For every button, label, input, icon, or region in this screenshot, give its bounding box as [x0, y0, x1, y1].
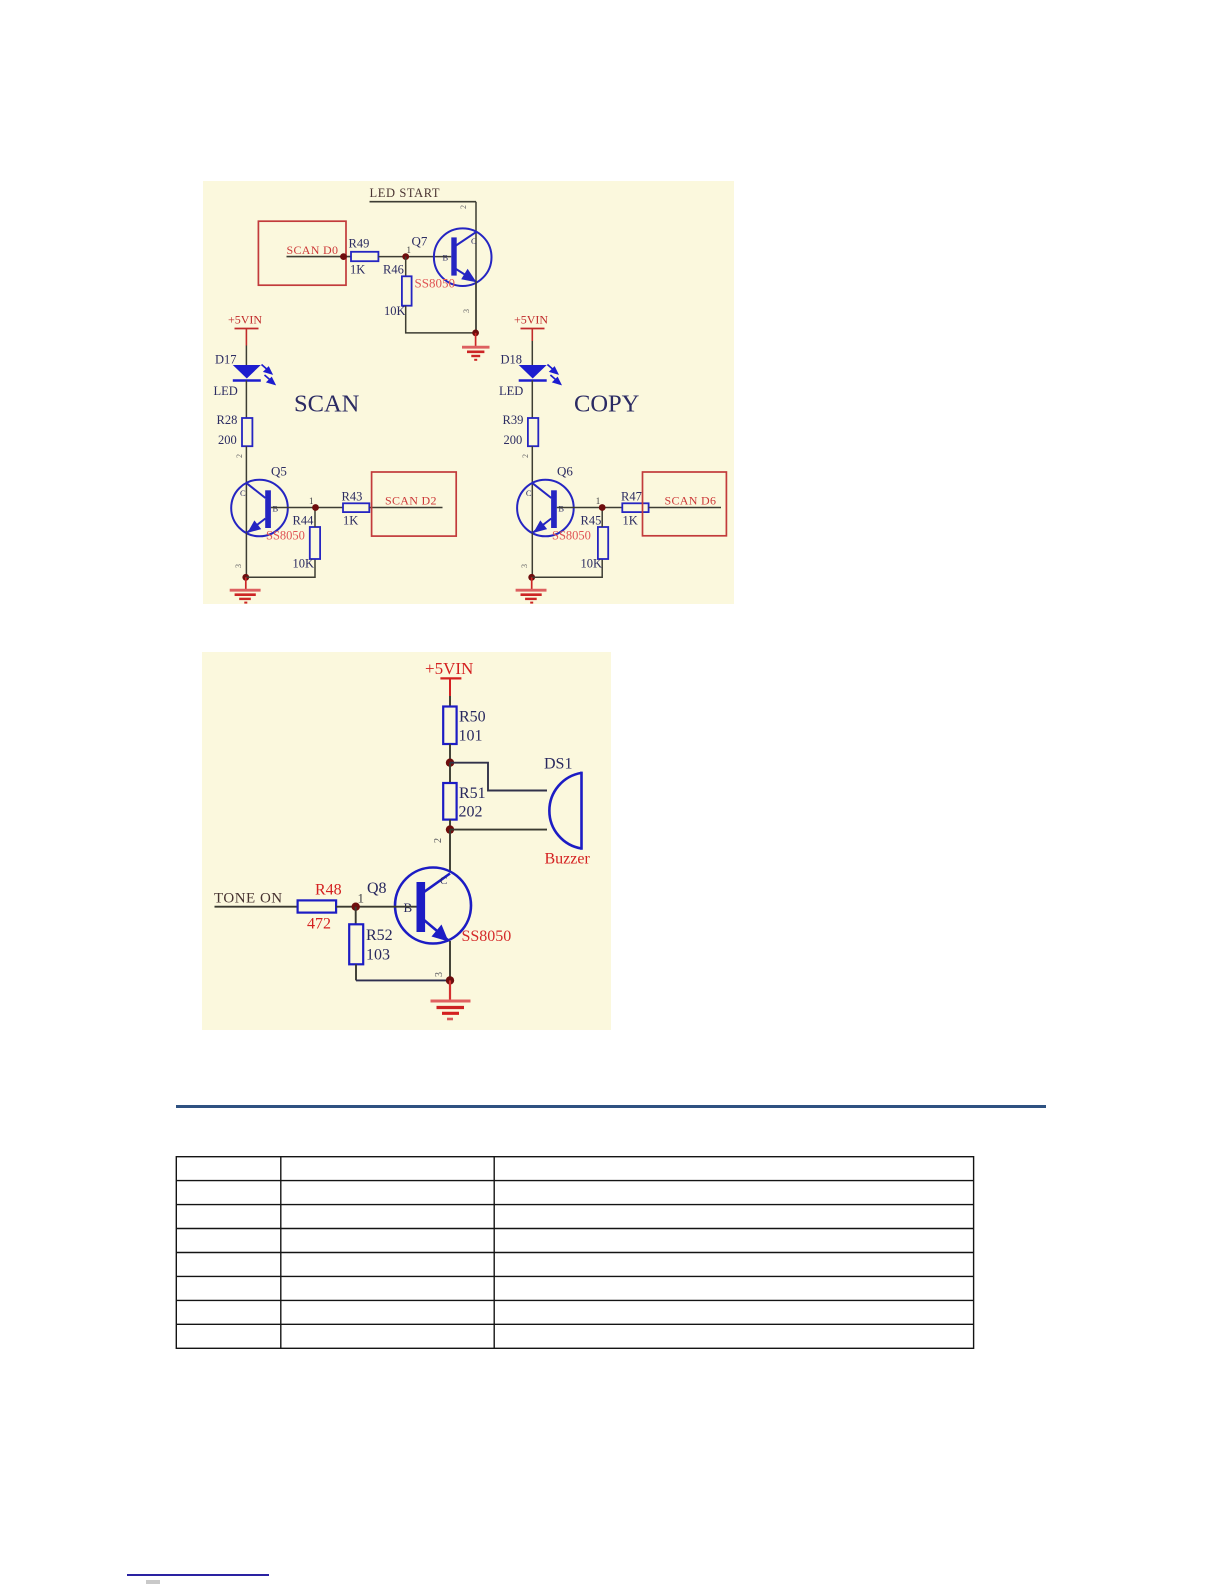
svg-text:B: B	[273, 504, 279, 514]
power +5VIN (COPY branch)	[514, 313, 548, 342]
wire TONE ON to R48	[215, 906, 298, 908]
wire Q6 base to R47	[557, 507, 623, 509]
LED D17	[233, 365, 261, 381]
ground (Q6)	[516, 577, 547, 602]
svg-text:+5VIN: +5VIN	[425, 659, 473, 678]
footnote rule	[127, 1574, 269, 1576]
resistor R48	[298, 900, 337, 912]
wire R39 to Q6	[531, 446, 533, 483]
wire R28 to Q5	[245, 446, 247, 483]
wire R45 top riser	[601, 508, 603, 528]
svg-text:1: 1	[407, 245, 412, 255]
svg-text:1K: 1K	[343, 514, 358, 528]
svg-text:TONE ON: TONE ON	[214, 891, 283, 907]
wire through Q5 body	[245, 483, 247, 533]
junction Q6 emitter/ground	[528, 574, 535, 581]
svg-text:B: B	[558, 504, 564, 514]
svg-text:R45: R45	[581, 514, 602, 528]
empty parts table	[175, 1155, 976, 1351]
port box SCAN D6	[643, 472, 727, 536]
port box SCAN D2	[372, 472, 457, 536]
svg-text:3: 3	[434, 972, 445, 977]
resistor R44	[310, 527, 320, 559]
svg-text:10K: 10K	[384, 304, 406, 318]
svg-text:+5VIN: +5VIN	[228, 313, 262, 327]
transistor Q6	[517, 480, 574, 537]
svg-text:R47: R47	[621, 490, 642, 504]
svg-text:LED START: LED START	[370, 186, 441, 200]
svg-text:R51: R51	[459, 785, 486, 802]
wire D18 to R39	[531, 381, 533, 419]
svg-text:3: 3	[520, 564, 529, 568]
svg-text:R44: R44	[293, 514, 315, 528]
svg-text:+5VIN: +5VIN	[514, 313, 548, 327]
port box SCAN D0	[258, 221, 346, 285]
wire SCAN D0 to R49	[287, 256, 352, 258]
section divider rule	[176, 1105, 1046, 1108]
resistor R47	[622, 503, 648, 512]
resistor R50	[443, 707, 456, 745]
wire Q7 collector riser	[475, 202, 477, 333]
svg-text:1K: 1K	[350, 263, 365, 277]
svg-text:C: C	[471, 236, 477, 246]
svg-text:C: C	[440, 875, 447, 887]
svg-text:R46: R46	[383, 263, 404, 277]
transistor Q5	[231, 480, 288, 537]
svg-text:R28: R28	[217, 413, 238, 427]
ground	[431, 980, 471, 1019]
transistor Q7	[434, 228, 492, 286]
svg-text:3: 3	[234, 564, 243, 568]
svg-text:10K: 10K	[293, 557, 315, 571]
wire Q6 emitter to ground	[531, 533, 533, 578]
wire emitter junction to R44	[246, 559, 315, 577]
svg-text:Q8: Q8	[367, 880, 387, 897]
junction R49/R46/Q7 base	[402, 253, 409, 260]
resistor R52	[349, 907, 363, 981]
schematic panel 2: buzzer driver	[202, 652, 611, 1030]
svg-text:202: 202	[459, 804, 483, 821]
power +5VIN (SCAN branch)	[228, 313, 262, 346]
svg-text:Q6: Q6	[557, 464, 573, 479]
svg-text:B: B	[443, 253, 449, 263]
svg-text:R48: R48	[315, 882, 342, 899]
svg-text:R39: R39	[503, 413, 524, 427]
svg-text:2: 2	[459, 205, 468, 209]
wire Q8 emitter down	[449, 941, 451, 980]
svg-text:SS8050: SS8050	[462, 928, 512, 945]
svg-text:200: 200	[504, 433, 523, 447]
resistor R51	[443, 763, 456, 830]
junction emitter/ground	[446, 976, 454, 984]
wire Q5 emitter to ground	[245, 533, 247, 578]
svg-text:1: 1	[596, 496, 601, 506]
svg-text:Q5: Q5	[271, 464, 287, 479]
svg-text:1: 1	[309, 496, 314, 506]
wire junction to buzzer bottom terminal	[450, 829, 547, 831]
resistor R46	[402, 257, 412, 306]
svg-text:1K: 1K	[623, 514, 638, 528]
svg-text:3: 3	[462, 309, 471, 313]
svg-text:D17: D17	[215, 353, 237, 367]
footnote text fragment	[146, 1580, 160, 1584]
wire Q7 emitter to ground junction	[475, 281, 477, 333]
svg-text:C: C	[240, 488, 246, 498]
svg-text:10K: 10K	[581, 557, 603, 571]
junction R50/R51	[446, 759, 454, 767]
svg-text:R49: R49	[349, 237, 370, 251]
junction Q5 base/R44	[312, 504, 319, 511]
svg-text:2: 2	[521, 454, 530, 458]
light emission arrows D17	[262, 365, 275, 385]
junction R51/buzzer/collector	[446, 825, 454, 833]
svg-text:LED: LED	[214, 384, 238, 398]
svg-text:R43: R43	[342, 490, 363, 504]
svg-text:SCAN D2: SCAN D2	[385, 494, 437, 508]
buzzer DS1	[549, 772, 581, 850]
light emission arrows D18	[547, 365, 560, 385]
wire R44 top riser	[314, 508, 316, 528]
svg-text:472: 472	[307, 916, 331, 933]
resistor R49	[351, 252, 378, 261]
wire D17 to R28	[245, 381, 247, 419]
wire R43 to SCAN D2	[369, 507, 442, 509]
svg-text:COPY: COPY	[574, 391, 640, 418]
resistor R43	[343, 503, 369, 512]
resistor R45	[598, 527, 608, 559]
svg-text:101: 101	[459, 728, 483, 745]
schematic panel 1: SCAN / COPY LED drivers	[203, 181, 734, 604]
junction Q5 emitter/ground	[242, 574, 249, 581]
svg-text:Buzzer: Buzzer	[545, 851, 591, 868]
svg-text:SCAN D6: SCAN D6	[665, 494, 717, 508]
svg-text:1: 1	[358, 891, 365, 906]
wire junction to buzzer top terminal	[450, 763, 547, 791]
svg-text:DS1: DS1	[544, 756, 572, 773]
junction Q6 base/R45	[599, 504, 606, 511]
wire R47 to SCAN D6	[649, 507, 721, 509]
ground (Q7)	[462, 333, 490, 360]
resistor R39	[528, 418, 538, 446]
wire R52 to emitter junction	[356, 979, 450, 981]
svg-text:SCAN: SCAN	[294, 391, 360, 418]
wire +5VIN to R50	[449, 696, 451, 707]
svg-text:R50: R50	[459, 709, 486, 726]
svg-text:SS8050: SS8050	[552, 529, 591, 543]
svg-text:Q7: Q7	[412, 234, 428, 249]
junction at SCAN D0 box edge	[340, 253, 347, 260]
svg-text:2: 2	[433, 838, 444, 843]
svg-text:LED: LED	[499, 384, 523, 398]
wire +5VIN to D17	[245, 346, 247, 366]
resistor R28	[242, 418, 252, 446]
svg-text:C: C	[526, 488, 532, 498]
wire Q5 base to R43	[271, 507, 343, 509]
wire through Q6 body	[531, 483, 533, 533]
power +5VIN	[425, 659, 473, 696]
wire LED START net	[370, 201, 477, 203]
transistor Q8	[395, 868, 471, 944]
svg-text:SS8050: SS8050	[266, 529, 305, 543]
wire buzzer junction to Q8 collector	[449, 830, 451, 872]
junction base/R52	[352, 903, 360, 911]
wire R49 to Q7 base	[378, 256, 451, 258]
junction Q7 emitter/R46	[472, 330, 479, 337]
svg-text:200: 200	[218, 433, 237, 447]
ground (Q5)	[230, 577, 261, 602]
LED D18	[519, 365, 547, 381]
svg-text:SS8050: SS8050	[415, 276, 455, 291]
svg-text:D18: D18	[501, 353, 523, 367]
wire R50 to junction	[449, 744, 451, 763]
wire R48 to Q8 base	[336, 906, 416, 908]
wire emitter junction to R45	[532, 559, 603, 577]
svg-text:SCAN D0: SCAN D0	[287, 243, 339, 257]
svg-text:2: 2	[235, 454, 244, 458]
wire +5VIN to D18	[531, 341, 533, 366]
svg-text:R52: R52	[366, 927, 393, 944]
wire R46 to emitter junction	[406, 306, 476, 333]
svg-text:103: 103	[366, 947, 390, 964]
